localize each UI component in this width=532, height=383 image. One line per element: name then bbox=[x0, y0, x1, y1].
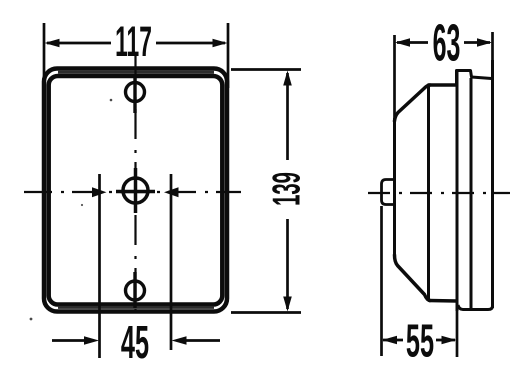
side view horizontal centerline bbox=[368, 192, 510, 194]
svg-text:45: 45 bbox=[121, 316, 149, 368]
front view border scan-bleed top bbox=[58, 71, 214, 74]
svg-text:55: 55 bbox=[406, 314, 434, 366]
dim 45 extension lines bbox=[100, 174, 172, 358]
front view inner outline bbox=[49, 76, 223, 305]
svg-text:139: 139 bbox=[264, 172, 308, 206]
scan speck near top hole bbox=[110, 99, 113, 102]
dim 117 left arrow bbox=[45, 39, 60, 48]
side view bottom slope bbox=[395, 255, 431, 301]
dim 117 dimension line bbox=[47, 42, 225, 45]
side view plate bottom edge bbox=[458, 305, 493, 310]
dim 117 extension lines bbox=[44, 23, 228, 88]
bottom mounting hole bbox=[126, 272, 145, 308]
side view top slope bbox=[395, 85, 431, 121]
dim 63 right extension line bbox=[491, 32, 494, 62]
dim 63 left extension line bbox=[393, 35, 396, 120]
dim 63 label bbox=[433, 13, 461, 72]
dim 55 left arrow bbox=[382, 336, 397, 345]
dim 139 top extension line bbox=[231, 68, 301, 71]
top mounting hole bbox=[126, 77, 145, 113]
svg-text:117: 117 bbox=[115, 19, 152, 66]
side view lens-housing joint line bbox=[427, 86, 430, 299]
front view vertical centerline bbox=[134, 56, 136, 320]
svg-text:63: 63 bbox=[433, 13, 461, 72]
dim 55 right arrow bbox=[442, 336, 457, 345]
dim 45 right centerline arrow bbox=[164, 187, 179, 197]
dim 139 top arrow bbox=[283, 71, 292, 86]
dim 117 label bbox=[115, 19, 152, 66]
front view outer outline bbox=[44, 69, 227, 312]
side view gasket line bbox=[456, 71, 459, 311]
dim 45 label bbox=[121, 316, 149, 368]
front view border scan-bleed bottom bbox=[58, 306, 214, 309]
side view right edge bbox=[491, 60, 494, 308]
dim 139 bottom extension line bbox=[231, 311, 301, 314]
dim 55 right extension line bbox=[456, 311, 459, 357]
side view base plate line bbox=[470, 78, 473, 309]
dim 139 bottom arrow bbox=[283, 297, 292, 312]
side view top step bbox=[457, 71, 492, 86]
side view housing bottom edge bbox=[429, 299, 457, 303]
dim 55 left extension line bbox=[380, 206, 383, 356]
dim 45 right arrow bbox=[172, 336, 187, 345]
scan speck left of center bbox=[81, 204, 83, 206]
side view lens front edge bbox=[393, 118, 396, 257]
dim 139 dimension line bbox=[286, 73, 289, 309]
dim 55 dimension line bbox=[383, 339, 455, 342]
dim 63 left arrow bbox=[395, 38, 410, 47]
side view mounting tab bbox=[382, 180, 395, 205]
front view horizontal centerline bbox=[24, 191, 241, 193]
scan speck bottom left margin bbox=[30, 318, 33, 321]
dim 45 dimension line bbox=[52, 339, 220, 342]
dim 45 left arrow bbox=[84, 336, 99, 345]
dim 63 dimension line bbox=[397, 41, 490, 44]
dim 55 label bbox=[406, 314, 434, 366]
dim 45 left centerline arrow bbox=[92, 187, 107, 197]
dim 139 label bbox=[264, 172, 308, 206]
side view housing top edge bbox=[428, 83, 459, 87]
dim 63 right arrow bbox=[477, 38, 492, 47]
dim 117 right arrow bbox=[213, 39, 228, 48]
center marker bbox=[116, 168, 155, 213]
